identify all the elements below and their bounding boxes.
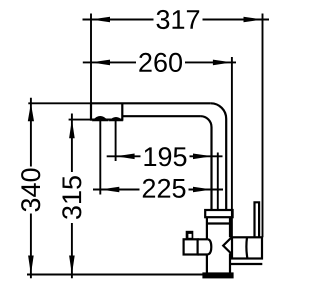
spray outlet neck lines — [198, 239, 208, 254]
spray outlet cap dome — [207, 239, 211, 254]
arrow 225 left — [100, 187, 119, 193]
spout outer bend curve — [211, 103, 226, 210]
spray knob — [186, 231, 194, 240]
dimension line 340 — [30, 98, 32, 278]
dim label 317 — [157, 10, 200, 29]
extension line 315 horizontal — [69, 119, 91, 121]
handle divider curve — [246, 237, 247, 258]
dim label 225 — [143, 179, 186, 198]
extension line right 317 — [262, 14, 264, 238]
arrow 317 left — [91, 17, 110, 23]
dim label 315 (rotated) — [62, 176, 81, 219]
dimension line 225 — [93, 189, 223, 191]
handle under-edge line — [230, 263, 262, 265]
handle joint V — [223, 238, 231, 254]
dimension line 195 — [107, 155, 223, 157]
extension line 340 horizontal — [28, 102, 91, 104]
extension line riser mid (195/225) — [217, 153, 219, 211]
arrow 317 right — [244, 17, 263, 23]
body right side wall — [229, 217, 231, 272]
arrow 195 left — [116, 154, 135, 160]
extension line right 260 — [231, 57, 233, 237]
dim label 195 — [145, 147, 187, 166]
dimension line 317 — [83, 19, 270, 21]
extension line left (317/260) — [90, 14, 92, 104]
datum baseline — [27, 274, 203, 276]
handle block — [232, 237, 262, 258]
spray knob slot — [188, 234, 191, 238]
spout top edge — [91, 102, 211, 104]
extension line under left aerator (225) — [99, 121, 101, 195]
spray outlet housing — [184, 239, 198, 254]
aerator bump right — [110, 118, 122, 121]
arrow 340 top — [28, 103, 34, 121]
extension line under right aerator (195) — [115, 121, 117, 162]
aerator bump left — [93, 117, 107, 121]
lever stem — [255, 202, 260, 237]
dimension line 260 — [83, 61, 236, 63]
spout inner bend curve — [201, 116, 212, 210]
base flange — [202, 272, 233, 278]
spout bottom edge — [122, 115, 200, 117]
body collar flange — [205, 210, 232, 217]
spout nozzle head outline — [91, 103, 122, 119]
arrow 195 right — [193, 154, 212, 160]
dim label 340 (rotated) — [21, 169, 40, 212]
arrow 315 bottom — [69, 256, 75, 275]
dimension line 315 — [71, 114, 73, 279]
body ring line — [207, 222, 230, 224]
arrow 260 right — [213, 60, 232, 66]
arrow 225 right — [193, 187, 212, 193]
dim label 260 — [139, 53, 182, 72]
body left side wall — [206, 217, 208, 272]
arrow 260 left — [91, 60, 110, 66]
arrow 340 bottom — [28, 256, 34, 275]
arrow 315 top — [69, 119, 75, 138]
